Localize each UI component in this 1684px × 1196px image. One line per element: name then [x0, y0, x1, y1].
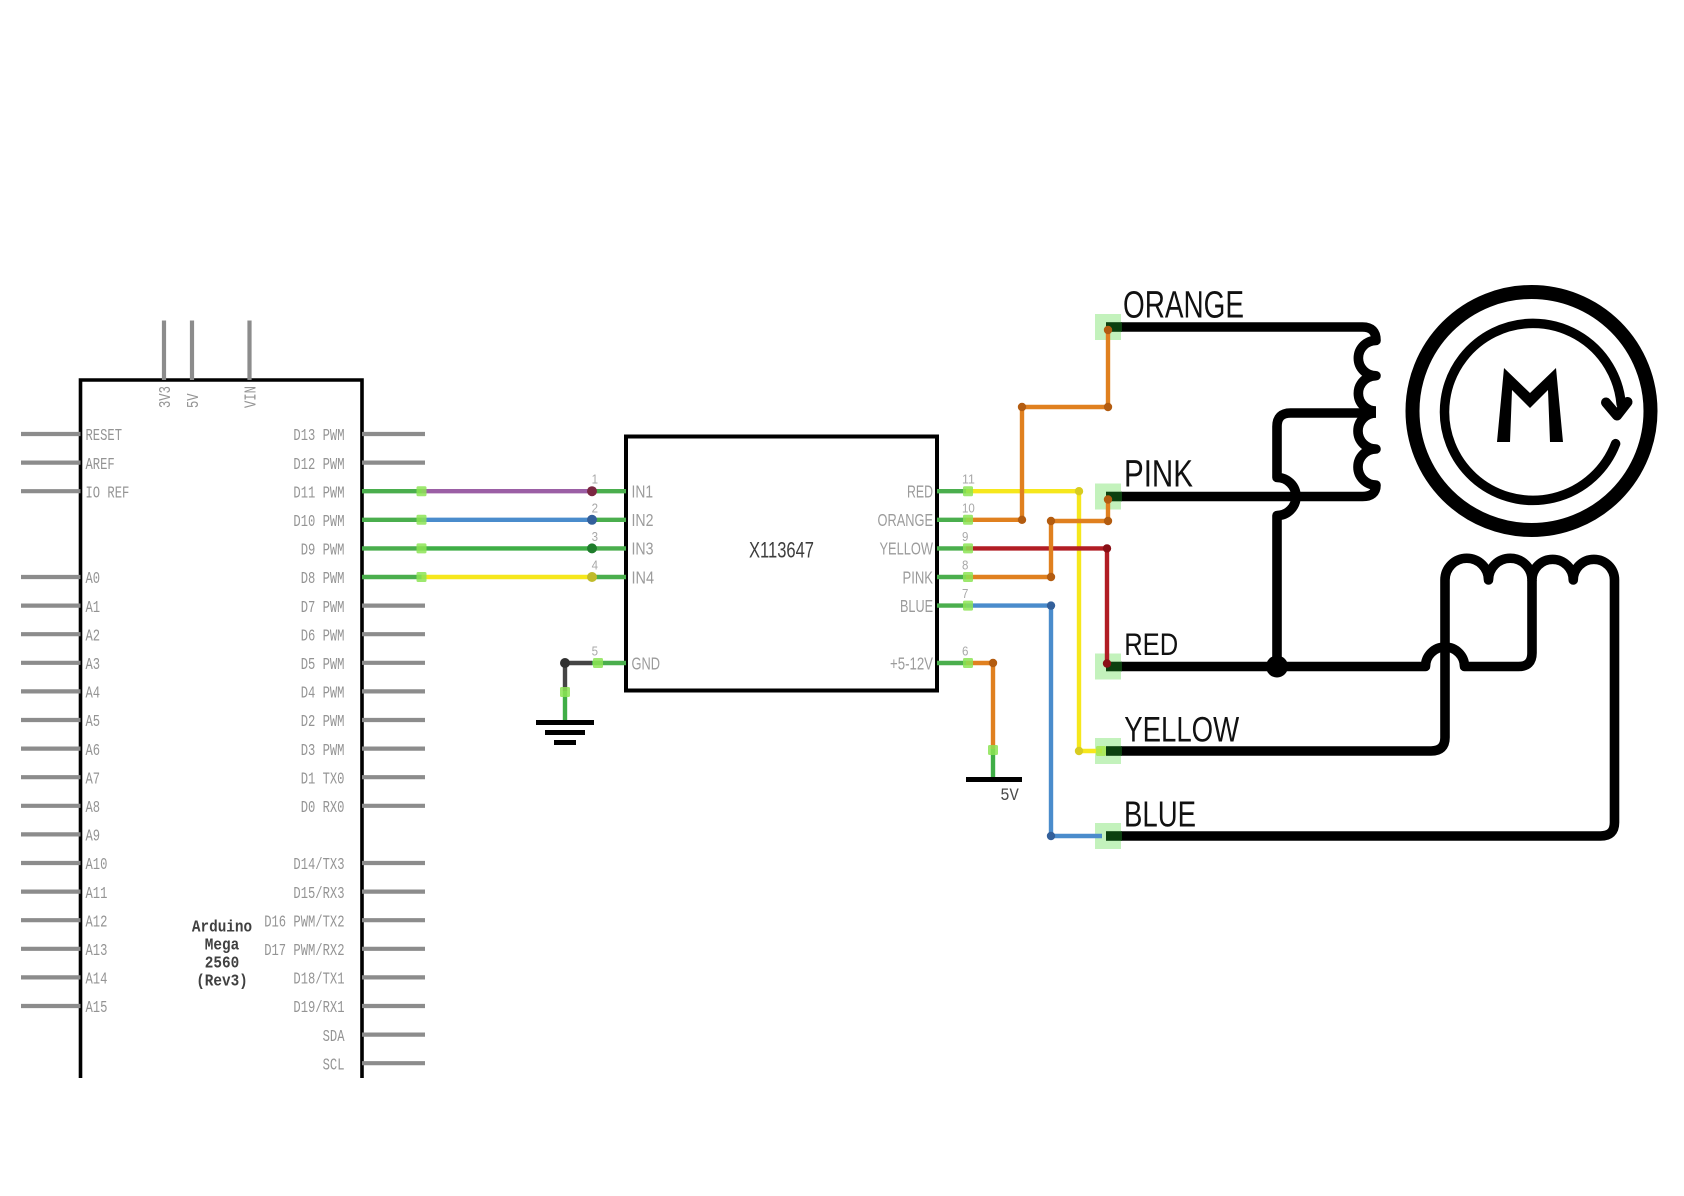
arduino left pin IO REF [21, 489, 81, 493]
arduino left pin A10 [21, 861, 81, 865]
svg-text:X113647: X113647 [749, 538, 814, 563]
arduino right pin D7 PWM [362, 603, 425, 607]
coil A lower winding + pink lead [1121, 413, 1376, 497]
chip pin 2 IN2 [592, 518, 626, 522]
driver chip U2 X113647 [592, 437, 975, 691]
svg-text:D8 PWM: D8 PWM [301, 569, 345, 588]
wire RED pin11 to YELLOW terminal (yellow) [966, 491, 1102, 751]
yellow lead riser [1121, 580, 1445, 751]
arduino left pin A14 [21, 975, 81, 979]
chip pin 9 YELLOW [937, 546, 966, 550]
blue lead riser [1121, 580, 1615, 836]
svg-text:A13: A13 [86, 941, 108, 960]
arduino left pin A12 [21, 918, 81, 922]
arduino left pin A7 [21, 775, 81, 779]
arrow head [1606, 402, 1628, 416]
arduino right pin D18/TX1 [362, 975, 425, 979]
arduino right pin D12 PWM [362, 461, 425, 465]
arduino left pin A9 [21, 832, 81, 836]
svg-text:D2 PWM: D2 PWM [301, 712, 345, 731]
arduino right pin D6 PWM [362, 632, 425, 636]
wire ORANGE pin10 to ORANGE terminal [966, 327, 1108, 520]
svg-text:PINK: PINK [903, 567, 934, 587]
svg-text:ORANGE: ORANGE [1123, 284, 1244, 326]
svg-text:A12: A12 [86, 912, 108, 931]
motor terminal YELLOW [1095, 738, 1121, 764]
svg-text:IN4: IN4 [632, 567, 655, 587]
svg-text:A7: A7 [86, 769, 101, 788]
stepper motor M1 leads and coils [1121, 327, 1615, 836]
svg-text:YELLOW: YELLOW [880, 539, 934, 559]
arduino right pin D1 TX0 [362, 775, 425, 779]
svg-text:SDA: SDA [323, 1027, 345, 1046]
arduino body outline [81, 380, 363, 1078]
svg-text:Mega: Mega [205, 936, 239, 955]
coil A orange lead + upper winding [1121, 327, 1376, 411]
svg-text:5V: 5V [184, 393, 203, 408]
svg-text:7: 7 [962, 587, 968, 601]
arduino left pin A0 [21, 575, 81, 579]
wire +5-12V to 5V rail [966, 663, 993, 749]
svg-text:5: 5 [592, 645, 598, 659]
arduino right pin D13 PWM [362, 432, 425, 436]
svg-text:A11: A11 [86, 884, 108, 903]
svg-text:A8: A8 [86, 798, 101, 817]
svg-text:10: 10 [962, 501, 975, 515]
chip pin 5 GND [592, 661, 626, 665]
svg-text:D6 PWM: D6 PWM [301, 626, 345, 645]
wire BLUE pin7 to BLUE terminal [966, 606, 1102, 836]
chip pin 1 IN1 [592, 489, 626, 493]
arduino right pin D0 RX0 [362, 804, 425, 808]
svg-text:D13 PWM: D13 PWM [293, 426, 344, 445]
arduino left pin A4 [21, 689, 81, 693]
svg-text:AREF: AREF [86, 455, 115, 474]
motor M letter [1497, 368, 1563, 442]
arduino right pin D5 PWM [362, 661, 425, 665]
svg-text:D16 PWM/TX2: D16 PWM/TX2 [264, 912, 344, 931]
svg-text:A3: A3 [86, 655, 101, 674]
svg-text:9: 9 [962, 530, 968, 544]
arduino left pin A5 [21, 718, 81, 722]
svg-text:YELLOW: YELLOW [1124, 710, 1239, 749]
arduino left pin A6 [21, 746, 81, 750]
arduino top pin VIN [247, 321, 251, 381]
motor rotation arrow arc [1445, 323, 1622, 500]
svg-text:3: 3 [592, 530, 598, 544]
arduino left pin A15 [21, 1004, 81, 1008]
svg-text:A6: A6 [86, 741, 101, 760]
svg-text:A2: A2 [86, 626, 101, 645]
svg-text:IO REF: IO REF [86, 483, 130, 502]
svg-text:RED: RED [1124, 627, 1178, 662]
svg-text:A4: A4 [86, 684, 101, 703]
svg-text:D11 PWM: D11 PWM [293, 483, 344, 502]
svg-text:6: 6 [962, 645, 968, 659]
wire YELLOW pin9 to RED terminal (dark red) [966, 548, 1107, 662]
svg-text:D17 PWM/RX2: D17 PWM/RX2 [264, 941, 344, 960]
arduino left pin A11 [21, 889, 81, 893]
svg-text:IN2: IN2 [632, 510, 654, 530]
svg-text:BLUE: BLUE [1124, 793, 1196, 834]
wire GND to ground [565, 663, 592, 691]
svg-text:D14/TX3: D14/TX3 [293, 855, 344, 874]
arduino right pin SDA [362, 1032, 425, 1036]
wire PINK pin8 to PINK terminal [966, 497, 1108, 578]
chip pin 6 +5-12V [937, 661, 966, 665]
svg-text:RED: RED [907, 482, 933, 502]
chip pin 3 IN3 [592, 546, 626, 550]
wire D10-IN2 blue [362, 518, 422, 522]
svg-text:D9 PWM: D9 PWM [301, 541, 345, 560]
arduino left pin A1 [21, 603, 81, 607]
svg-text:A9: A9 [86, 827, 101, 846]
svg-text:VIN: VIN [241, 386, 260, 408]
chip pin 8 PINK [937, 575, 966, 579]
svg-text:1: 1 [592, 473, 598, 487]
arduino right pin D14/TX3 [362, 861, 425, 865]
svg-text:A1: A1 [86, 598, 101, 617]
arduino right pin D17 PWM/RX2 [362, 947, 425, 951]
wire D8-IN4 yellow [362, 575, 422, 579]
svg-text:D1 TX0: D1 TX0 [301, 769, 345, 788]
svg-text:ORANGE: ORANGE [878, 510, 934, 530]
arduino left pin A2 [21, 632, 81, 636]
svg-text:D19/RX1: D19/RX1 [293, 998, 344, 1017]
svg-text:D3 PWM: D3 PWM [301, 741, 345, 760]
svg-text:D15/RX3: D15/RX3 [293, 884, 344, 903]
svg-text:5V: 5V [1000, 786, 1019, 806]
motor terminal ORANGE [1095, 314, 1121, 340]
motor body circle [1413, 292, 1651, 530]
wire D11-IN1 purple [362, 489, 422, 493]
arduino right pin D4 PWM [362, 689, 425, 693]
arduino left pin AREF [21, 461, 81, 465]
chip pin 4 IN4 [592, 575, 626, 579]
svg-text:8: 8 [962, 559, 968, 573]
arduino right pin SCL [362, 1061, 425, 1065]
center tap wire to RED with hop over pink [1277, 413, 1376, 667]
svg-text:D18/TX1: D18/TX1 [293, 970, 344, 989]
svg-text:A5: A5 [86, 712, 101, 731]
svg-text:D10 PWM: D10 PWM [293, 512, 344, 531]
arduino top pin 5V [190, 321, 194, 381]
Arduino Mega 2560 component U1 [21, 321, 425, 1079]
arduino right pin D16 PWM/TX2 [362, 918, 425, 922]
svg-text:(Rev3): (Rev3) [196, 972, 248, 991]
svg-text:A14: A14 [86, 970, 108, 989]
svg-text:BLUE: BLUE [900, 596, 933, 616]
arduino left pin A13 [21, 947, 81, 951]
svg-text:IN3: IN3 [632, 539, 654, 559]
svg-text:GND: GND [632, 653, 661, 673]
arduino left pin A3 [21, 661, 81, 665]
svg-text:A0: A0 [86, 569, 101, 588]
wire D9-IN3 green [362, 546, 422, 550]
chip pin 7 BLUE [937, 603, 966, 607]
svg-text:D7 PWM: D7 PWM [301, 598, 345, 617]
svg-text:4: 4 [592, 559, 598, 573]
chip pin 11 RED [937, 489, 966, 493]
arduino right pin D2 PWM [362, 718, 425, 722]
arduino left pin A8 [21, 804, 81, 808]
arduino right pin D3 PWM [362, 746, 425, 750]
svg-text:D12 PWM: D12 PWM [293, 455, 344, 474]
svg-text:2560: 2560 [205, 954, 239, 973]
coil B windings (horizontal) [1445, 558, 1615, 580]
arduino right pin D15/RX3 [362, 889, 425, 893]
arduino top pin 3V3 [162, 321, 166, 381]
svg-text:IN1: IN1 [632, 482, 654, 502]
svg-text:D5 PWM: D5 PWM [301, 655, 345, 674]
motor terminal RED [1095, 654, 1121, 680]
svg-text:A10: A10 [86, 855, 108, 874]
junction node on red common [1266, 656, 1288, 678]
ground symbol [536, 723, 594, 743]
chip pin 10 ORANGE [937, 518, 966, 522]
svg-text:+5-12V: +5-12V [890, 653, 933, 673]
arduino right pin D19/RX1 [362, 1004, 425, 1008]
svg-text:11: 11 [962, 473, 975, 487]
svg-text:2: 2 [592, 501, 598, 515]
svg-text:RESET: RESET [86, 426, 123, 445]
svg-text:SCL: SCL [323, 1055, 345, 1074]
svg-text:A15: A15 [86, 998, 108, 1017]
motor terminal PINK [1095, 484, 1121, 510]
svg-text:D0 RX0: D0 RX0 [301, 798, 345, 817]
motor terminal BLUE [1095, 823, 1121, 849]
arduino left pin RESET [21, 432, 81, 436]
svg-text:Arduino: Arduino [192, 918, 252, 937]
svg-text:3V3: 3V3 [156, 386, 175, 408]
svg-text:PINK: PINK [1124, 453, 1193, 495]
5V supply symbol [966, 777, 1022, 782]
red common lead with hop over yellow riser [1121, 580, 1532, 667]
svg-text:D4 PWM: D4 PWM [301, 684, 345, 703]
